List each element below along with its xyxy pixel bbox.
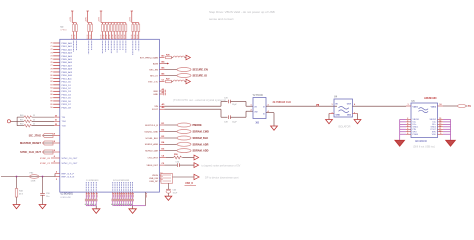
svg-text:SYNC_C0_OUT: SYNC_C0_OUT bbox=[62, 158, 79, 160]
svg-text:2: 2 bbox=[407, 118, 408, 120]
svg-text:33: 33 bbox=[33, 115, 35, 117]
svg-text:SDRAM_BLK: SDRAM_BLK bbox=[193, 137, 209, 140]
svg-text:SPU: SPU bbox=[413, 132, 418, 134]
svg-text:(TCXO RTC out - external cryst: (TCXO RTC out - external crystal systems… bbox=[173, 98, 226, 102]
svg-text:USB_DM: USB_DM bbox=[149, 178, 158, 180]
svg-text:1: 1 bbox=[331, 104, 332, 106]
svg-text:TDO: TDO bbox=[62, 121, 67, 123]
svg-text:12pF: 12pF bbox=[232, 104, 237, 106]
svg-text:PMODE: PMODE bbox=[193, 124, 203, 127]
svg-text:LFE5U-45F: LFE5U-45F bbox=[61, 197, 72, 199]
svg-text:OSC_RST: OSC_RST bbox=[148, 157, 159, 159]
svg-text:SDRAM_CMD: SDRAM_CMD bbox=[193, 131, 209, 134]
svg-text:REF_CLK_P: REF_CLK_P bbox=[62, 174, 75, 176]
svg-text:SDRTCLK_R: SDRTCLK_R bbox=[145, 125, 158, 127]
svg-text:13: 13 bbox=[439, 123, 441, 125]
svg-text:PB16_D4: PB16_D4 bbox=[62, 94, 72, 96]
svg-text:PB15_D3: PB15_D3 bbox=[62, 91, 72, 93]
svg-text:USB_DP: USB_DP bbox=[149, 181, 158, 183]
svg-text:REF_CLK_N: REF_CLK_N bbox=[62, 177, 75, 179]
svg-text:XO: XO bbox=[256, 121, 260, 124]
svg-text:PB20_D8: PB20_D8 bbox=[62, 107, 72, 109]
svg-text:SEC_IO: SEC_IO bbox=[150, 75, 158, 77]
svg-text:XO: XO bbox=[255, 111, 258, 113]
svg-text:33: 33 bbox=[33, 124, 35, 126]
svg-text:VBUS2: VBUS2 bbox=[429, 119, 436, 121]
svg-text:SECURE_IO: SECURE_IO bbox=[193, 75, 208, 78]
svg-text:15: 15 bbox=[439, 118, 441, 120]
svg-text:D2: D2 bbox=[160, 179, 162, 181]
svg-text:3: 3 bbox=[407, 121, 408, 123]
svg-text:ISOLATOR: ISOLATOR bbox=[338, 126, 351, 129]
svg-text:10uF: 10uF bbox=[173, 192, 178, 194]
svg-text:DD-: DD- bbox=[432, 122, 436, 124]
svg-text:VBUS_DET: VBUS_DET bbox=[146, 165, 158, 167]
svg-text:SYNC_C1: SYNC_C1 bbox=[40, 163, 51, 165]
svg-text:VDD: VDD bbox=[432, 134, 437, 136]
svg-text:9: 9 bbox=[440, 133, 441, 135]
svg-text:50: 50 bbox=[55, 115, 57, 117]
svg-text:1: 1 bbox=[250, 104, 251, 106]
svg-text:UD-: UD- bbox=[413, 122, 417, 124]
svg-text:SCSRL_BLK: SCSRL_BLK bbox=[145, 138, 158, 140]
svg-text:TDI: TDI bbox=[62, 117, 66, 119]
svg-text:1: 1 bbox=[408, 104, 409, 106]
svg-text:120R: 120R bbox=[31, 180, 36, 182]
svg-text:PB14_D2: PB14_D2 bbox=[62, 88, 72, 90]
svg-text:SYNC_C1_OUT: SYNC_C1_OUT bbox=[62, 163, 79, 165]
svg-text:PIN: PIN bbox=[413, 129, 417, 131]
svg-text:GND: GND bbox=[153, 94, 158, 96]
svg-text:12pF: 12pF bbox=[232, 122, 237, 124]
svg-text:SYNC_C0: SYNC_C0 bbox=[40, 158, 51, 160]
svg-text:VBUS: VBUS bbox=[152, 175, 158, 177]
svg-text:3V3 LVCMOS33D: 3V3 LVCMOS33D bbox=[113, 180, 130, 182]
svg-text:5: 5 bbox=[407, 126, 408, 128]
svg-text:to (agree) noise performance o: to (agree) noise performance of 5V bbox=[202, 164, 241, 167]
svg-text:5V: 5V bbox=[468, 105, 471, 108]
svg-text:SECURE_EN: SECURE_EN bbox=[193, 69, 208, 72]
svg-text:52: 52 bbox=[55, 124, 57, 126]
svg-text:11: 11 bbox=[439, 128, 441, 130]
svg-text:ADUM4160: ADUM4160 bbox=[424, 97, 437, 100]
svg-text:GND2: GND2 bbox=[430, 127, 436, 129]
svg-text:8: 8 bbox=[407, 133, 408, 135]
svg-text:SDRAM_ADR: SDRAM_ADR bbox=[193, 143, 209, 146]
svg-text:6: 6 bbox=[407, 128, 408, 130]
svg-text:33: 33 bbox=[33, 119, 35, 121]
svg-text:VDD1: VDD1 bbox=[413, 107, 419, 109]
svg-text:PB13_D1: PB13_D1 bbox=[62, 85, 72, 87]
svg-text:XOUT: XOUT bbox=[152, 109, 159, 111]
svg-text:PB19_D7: PB19_D7 bbox=[62, 104, 72, 106]
svg-text:sense and convert: sense and convert bbox=[209, 17, 234, 21]
svg-text:REF: REF bbox=[154, 91, 159, 93]
svg-text:PB17_D5: PB17_D5 bbox=[62, 98, 72, 100]
svg-text:PB18_D6: PB18_D6 bbox=[62, 101, 72, 103]
svg-text:12: 12 bbox=[439, 126, 441, 128]
svg-text:(DNI if not USB iso): (DNI if not USB iso) bbox=[413, 146, 435, 149]
svg-text:LFE5U: LFE5U bbox=[61, 29, 68, 31]
svg-text:7: 7 bbox=[407, 131, 408, 133]
svg-text:Y2 TCXO: Y2 TCXO bbox=[253, 94, 263, 97]
svg-text:PDEN: PDEN bbox=[413, 134, 419, 136]
svg-text:SEC_EN: SEC_EN bbox=[149, 69, 158, 71]
svg-text:1 LVCMOS33: 1 LVCMOS33 bbox=[86, 180, 99, 182]
svg-text:VBUS1: VBUS1 bbox=[413, 119, 420, 121]
svg-text:10: 10 bbox=[439, 131, 441, 133]
svg-text:51: 51 bbox=[55, 120, 57, 122]
svg-text:Step Drive: VBUS Valid - do no: Step Drive: VBUS Valid - do not power up… bbox=[209, 10, 275, 14]
svg-text:DP to device downstream port: DP to device downstream port bbox=[205, 176, 239, 179]
svg-text:32.768KHZ CLK: 32.768KHZ CLK bbox=[273, 101, 292, 104]
svg-text:XIN: XIN bbox=[154, 106, 158, 108]
svg-text:16: 16 bbox=[439, 104, 441, 106]
svg-text:EXT_CTL: EXT_CTL bbox=[148, 81, 158, 83]
svg-text:TCK: TCK bbox=[62, 126, 67, 128]
svg-text:SDRAM_ADD: SDRAM_ADD bbox=[193, 150, 209, 153]
svg-text:SDQS0_CMD: SDQS0_CMD bbox=[144, 131, 158, 133]
svg-text:POUT: POUT bbox=[430, 129, 436, 131]
svg-text:VDD2: VDD2 bbox=[431, 107, 437, 109]
svg-text:GND: GND bbox=[336, 115, 341, 117]
svg-text:SPD: SPD bbox=[432, 132, 437, 134]
svg-text:GND1: GND1 bbox=[413, 127, 419, 129]
svg-text:PB12_D0: PB12_D0 bbox=[62, 82, 72, 84]
svg-text:2: 2 bbox=[250, 109, 251, 111]
svg-text:USB_D: USB_D bbox=[185, 182, 193, 185]
svg-text:D1: D1 bbox=[160, 176, 162, 178]
